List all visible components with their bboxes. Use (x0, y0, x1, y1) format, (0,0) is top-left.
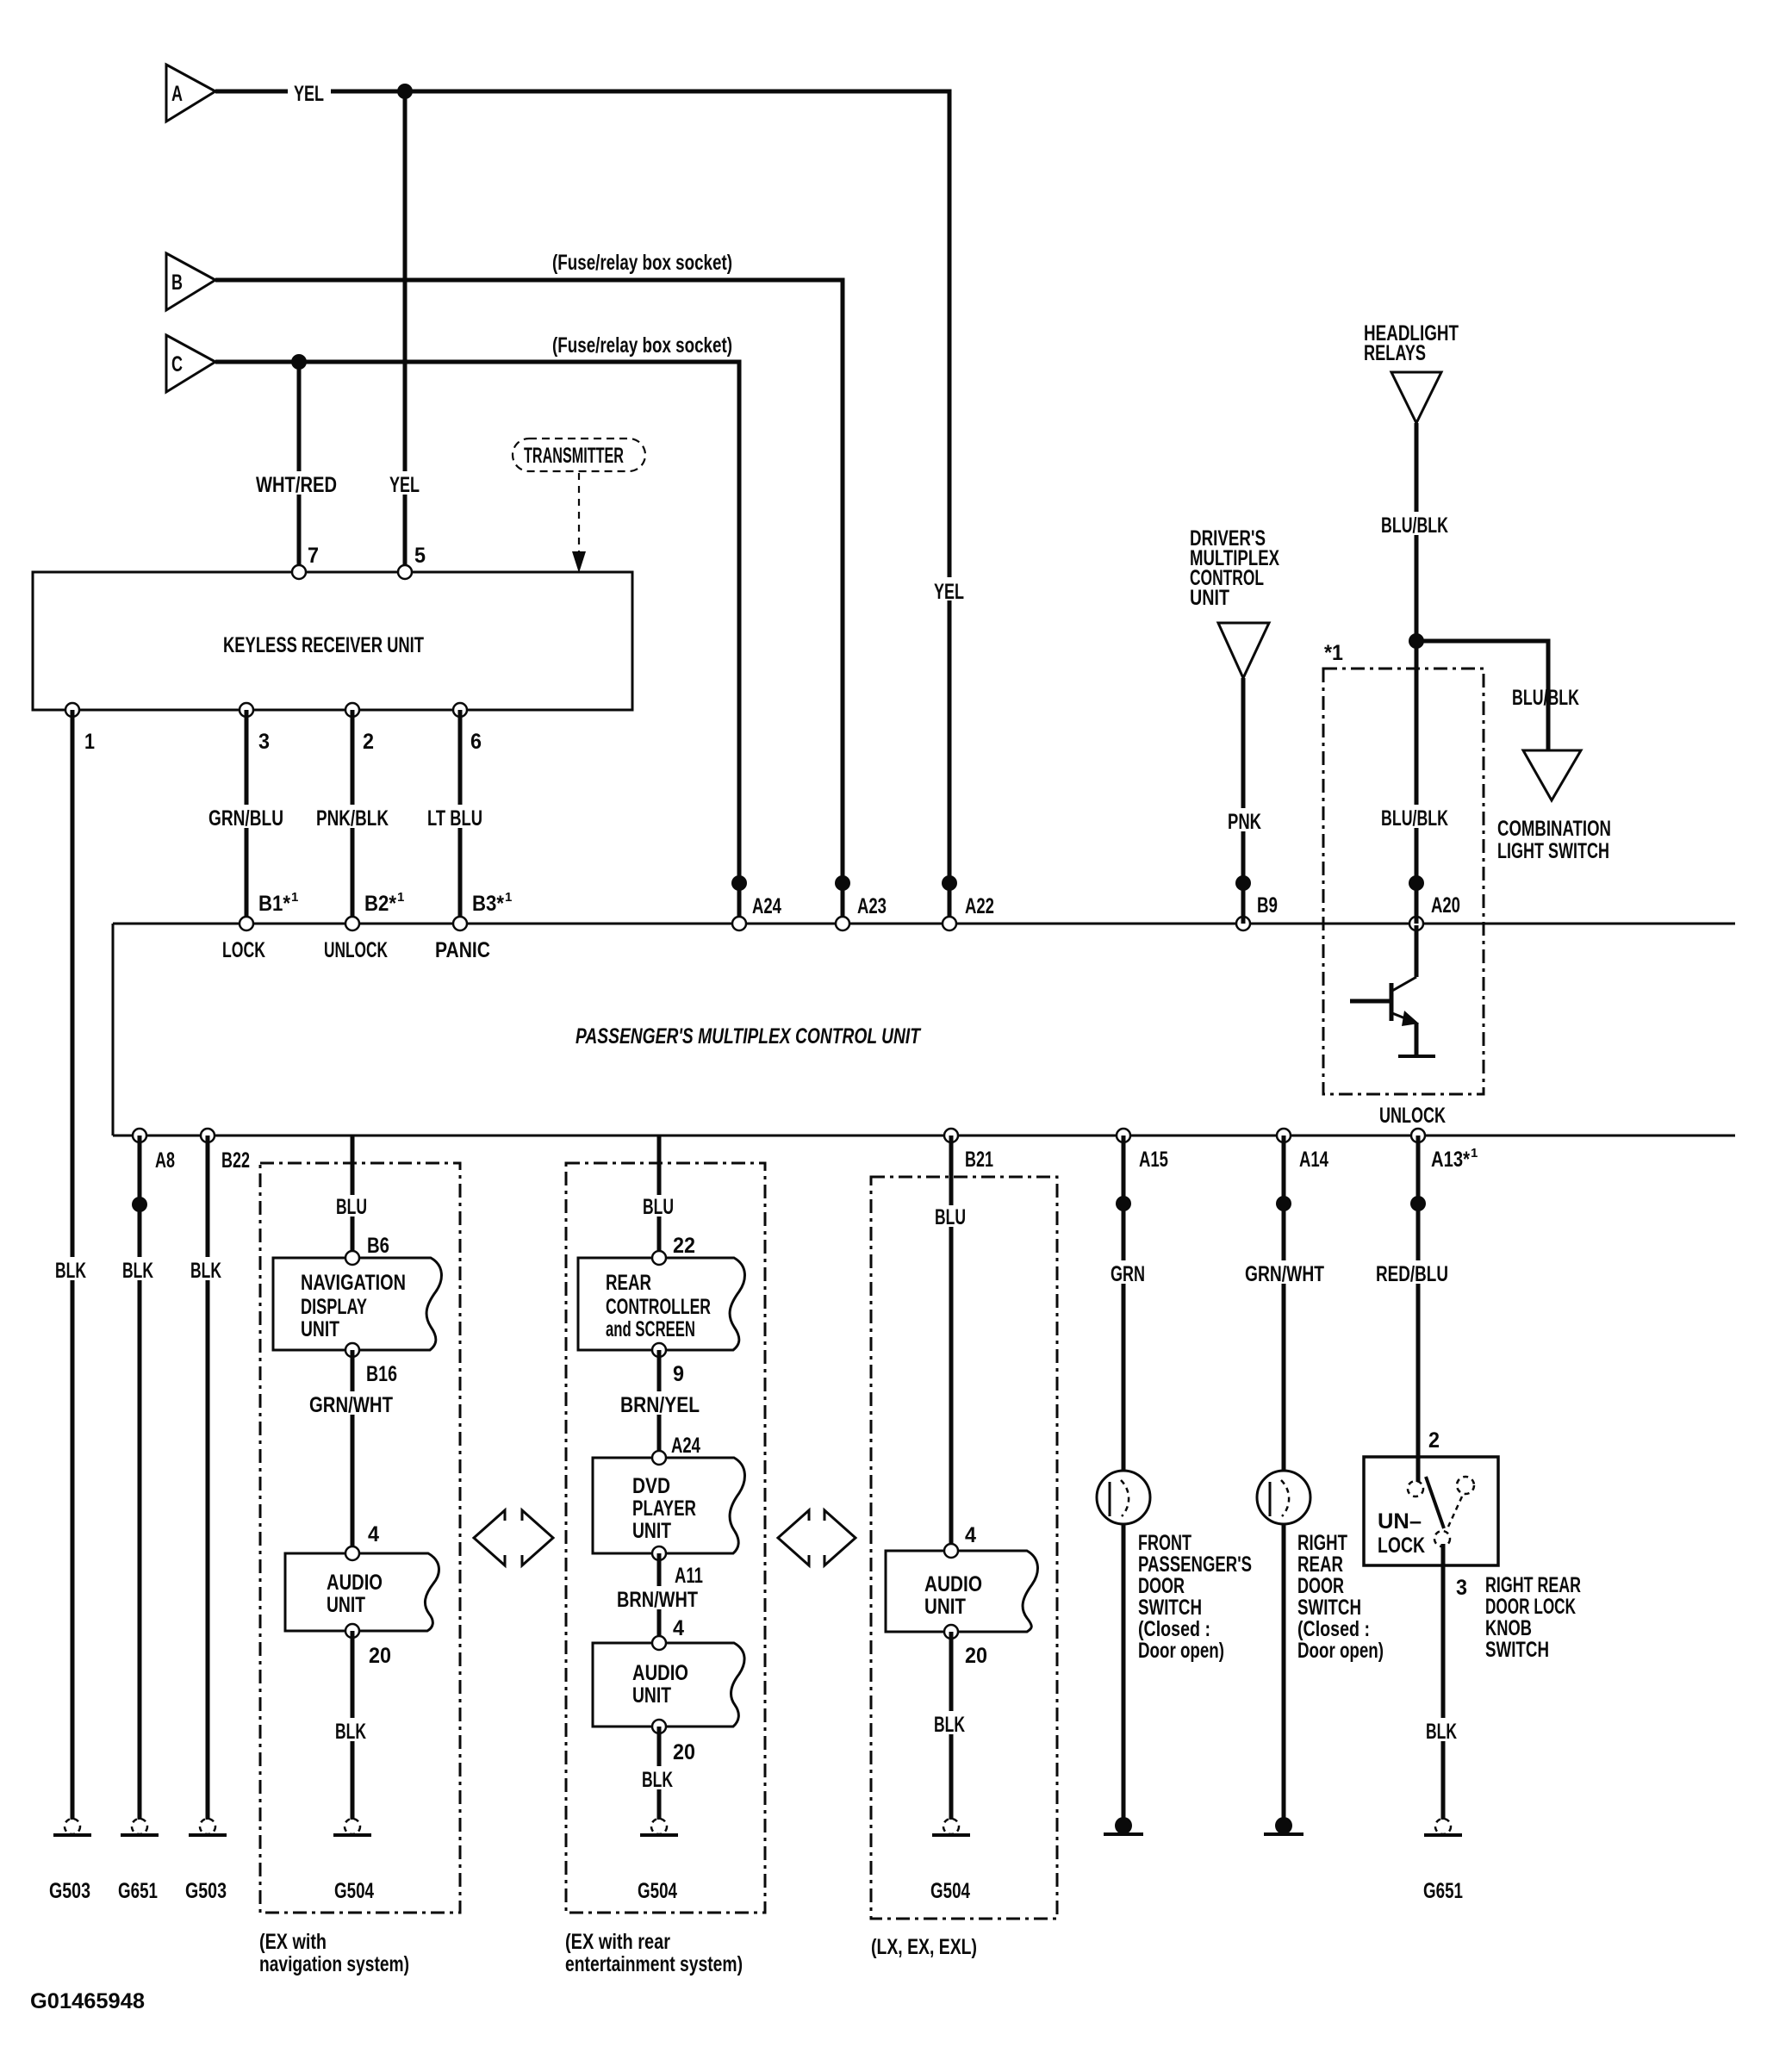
svg-text:RELAYS: RELAYS (1364, 341, 1426, 365)
ground G503 (keyless pin1) (53, 1819, 91, 1835)
wire YEL to keyless pin 5 (403, 91, 408, 572)
wire BLK audio to G504 (LX) (949, 1632, 954, 1820)
svg-text:(EX with: (EX with (259, 1930, 327, 1954)
svg-text:LT BLU: LT BLU (427, 806, 482, 831)
pin B2 (345, 917, 359, 930)
svg-text:22: 22 (673, 1234, 695, 1258)
svg-text:PASSENGER'S MULTIPLEX CONTROL: PASSENGER'S MULTIPLEX CONTROL UNIT (576, 1024, 922, 1048)
svg-text:DOOR: DOOR (1297, 1574, 1344, 1598)
svg-text:entertainment system): entertainment system) (565, 1952, 743, 1976)
svg-text:BLU: BLU (336, 1195, 367, 1219)
svg-text:3: 3 (1456, 1576, 1467, 1600)
svg-text:BRN/YEL: BRN/YEL (620, 1393, 700, 1417)
transistor emitter diagonal with arrow (1392, 1011, 1419, 1026)
navigation display unit box (273, 1258, 441, 1350)
keyless receiver unit box (33, 572, 632, 710)
svg-text:KNOB: KNOB (1485, 1616, 1532, 1640)
value label GRN/BLU (205, 805, 288, 831)
svg-text:BLK: BLK (934, 1713, 965, 1737)
value label BLK (pin1 wire) (52, 1257, 91, 1283)
svg-text:4: 4 (368, 1522, 379, 1546)
pin A24 DVD (652, 1451, 666, 1465)
pin B6 nav display (345, 1251, 359, 1265)
audio unit box (LX column) (886, 1551, 1037, 1632)
pin 2 keyless (345, 703, 359, 717)
svg-text:B2*: B2* (364, 892, 396, 916)
svg-text:B1*: B1* (258, 892, 290, 916)
junction to combination light switch branch (1409, 633, 1424, 649)
right rear door switch label (1297, 1531, 1384, 1663)
svg-text:WHT/RED: WHT/RED (256, 473, 337, 497)
svg-text:4: 4 (965, 1523, 976, 1547)
audio unit box (rear column) (593, 1643, 744, 1727)
svg-text:A24: A24 (752, 894, 781, 918)
wire C (fuse/relay box socket) (215, 362, 739, 924)
svg-text:A20: A20 (1431, 893, 1460, 918)
svg-text:1: 1 (505, 890, 512, 905)
svg-text:BLK: BLK (122, 1259, 153, 1283)
svg-text:(LX, EX, EXL): (LX, EX, EXL) (871, 1935, 977, 1959)
svg-text:BLU/BLK: BLU/BLK (1381, 806, 1448, 831)
value label GRN/WHT (1241, 1260, 1328, 1286)
value label BRN/YEL (617, 1391, 703, 1417)
pin B21 (944, 1129, 958, 1142)
wire knob switch pin 3 BLK to G651 (1441, 1544, 1446, 1820)
pin 7 keyless (292, 565, 306, 579)
bidirectional arrows rear/audio (778, 1510, 856, 1565)
transistor Q (unlock driver) collector lead (1415, 925, 1419, 977)
wire BLK audio to G504 (nav) (351, 1631, 355, 1820)
svg-text:KEYLESS RECEIVER UNIT: KEYLESS RECEIVER UNIT (223, 633, 424, 657)
junction on A13 wire (1410, 1196, 1426, 1211)
svg-text:DOOR: DOOR (1138, 1574, 1185, 1598)
svg-text:UNIT: UNIT (924, 1595, 966, 1619)
wire BRN/WHT DVD to audio (657, 1553, 662, 1643)
svg-text:A22: A22 (965, 894, 994, 918)
svg-text:1: 1 (84, 730, 95, 754)
svg-text:BLK: BLK (642, 1768, 673, 1792)
svg-text:(Closed :: (Closed : (1138, 1617, 1210, 1641)
knob switch lower contact (1434, 1531, 1450, 1546)
pin 4 audio (rear) (652, 1636, 666, 1650)
svg-text:TRANSMITTER: TRANSMITTER (524, 444, 624, 468)
junction on wire C to keyless pin 7 (291, 354, 307, 370)
wire BLK audio to G504 (rear) (657, 1727, 662, 1820)
svg-text:LIGHT SWITCH: LIGHT SWITCH (1497, 839, 1609, 863)
transistor emitter ground bar (1398, 1055, 1435, 1058)
value label BRN/WHT (613, 1586, 703, 1612)
svg-text:(Closed :: (Closed : (1297, 1617, 1370, 1641)
svg-text:B9: B9 (1257, 893, 1278, 918)
svg-text:YEL: YEL (934, 580, 964, 604)
svg-text:1: 1 (1471, 1146, 1478, 1160)
wire keyless pin1 BLK to G503 (71, 710, 75, 1820)
svg-text:PANIC: PANIC (435, 938, 490, 962)
svg-text:(Fuse/relay box socket): (Fuse/relay box socket) (552, 251, 732, 275)
passenger's multiplex control unit box (113, 924, 1735, 1136)
pin B22 (201, 1129, 215, 1142)
svg-text:A: A (171, 82, 183, 106)
svg-text:navigation system): navigation system) (259, 1952, 409, 1976)
value label GRN/WHT (nav) (306, 1391, 397, 1417)
svg-text:A23: A23 (857, 894, 887, 918)
svg-text:B: B (171, 271, 183, 295)
value label YEL on wire A (288, 79, 331, 106)
connector C (166, 335, 215, 392)
pin B16 nav display (345, 1343, 359, 1357)
svg-text:20: 20 (369, 1644, 391, 1668)
svg-text:REAR: REAR (606, 1271, 651, 1295)
svg-text:NAVIGATION: NAVIGATION (301, 1271, 406, 1295)
svg-text:2: 2 (1428, 1428, 1440, 1453)
ground (right rear door switch) (1264, 1817, 1303, 1834)
pin A24 (732, 917, 746, 930)
transistor base lead (1350, 999, 1391, 1004)
transmitter dashed arrow (572, 473, 586, 573)
svg-text:UNLOCK: UNLOCK (1379, 1104, 1446, 1128)
svg-text:Door open): Door open) (1297, 1639, 1384, 1663)
audio unit box (nav column) (285, 1553, 439, 1631)
pin A15 (1117, 1129, 1130, 1142)
value label PNK/BLK (313, 805, 394, 831)
ground G503 (B22) (189, 1819, 227, 1835)
wire WHT/RED to keyless pin 7 (297, 362, 302, 572)
pin A22 (943, 917, 956, 930)
svg-text:20: 20 (965, 1644, 987, 1668)
svg-text:DVD: DVD (632, 1474, 670, 1498)
svg-text:SWITCH: SWITCH (1297, 1596, 1361, 1620)
svg-text:A15: A15 (1139, 1148, 1168, 1172)
svg-text:PASSENGER'S: PASSENGER'S (1138, 1552, 1252, 1577)
svg-text:1: 1 (291, 890, 298, 905)
svg-text:GRN/BLU: GRN/BLU (208, 806, 283, 831)
value label WHT/RED (252, 471, 341, 497)
rear controller and screen box (578, 1258, 744, 1350)
pin A8 (133, 1129, 146, 1142)
ground G504 (LX) (932, 1819, 970, 1835)
pin 5 keyless (398, 565, 412, 579)
wire branch to combination light switch (1416, 641, 1548, 750)
svg-text:DOOR LOCK: DOOR LOCK (1485, 1595, 1576, 1619)
bidirectional arrows nav/rear (474, 1510, 553, 1565)
right rear door lock knob switch box (1364, 1457, 1498, 1565)
svg-text:6: 6 (470, 730, 482, 754)
front passenger's door switch label (1138, 1531, 1252, 1663)
svg-text:UN–: UN– (1378, 1509, 1422, 1534)
dashed option box (EX with navigation system) (260, 1163, 460, 1913)
pin A13*1 label (1431, 1146, 1478, 1172)
wire BLU/BLK headlight relays to A20 (1415, 423, 1419, 924)
svg-text:UNIT: UNIT (301, 1317, 339, 1341)
pin A13 (1411, 1129, 1425, 1142)
value label BLU (rear) (638, 1195, 680, 1219)
value label PNK (1223, 808, 1265, 834)
svg-text:G504: G504 (638, 1879, 677, 1903)
svg-text:C: C (171, 352, 183, 376)
svg-text:LOCK: LOCK (222, 938, 265, 962)
ground G504 (rear) (640, 1819, 678, 1835)
svg-text:DISPLAY: DISPLAY (301, 1295, 367, 1319)
dashed option box (LX, EX, EXL) (871, 1177, 1057, 1919)
wire B22..B6 BLU (nav column) (351, 1136, 355, 1258)
transistor collector diagonal (1392, 977, 1416, 991)
pin 1 keyless (65, 703, 79, 717)
wire keyless pin6 LT BLU to B3 (458, 710, 463, 924)
svg-text:B22: B22 (221, 1148, 250, 1173)
pin 22 rear controller (652, 1251, 666, 1265)
svg-text:BLK: BLK (190, 1259, 221, 1283)
wire GRN/WHT nav to audio (351, 1350, 355, 1553)
svg-text:GRN/WHT: GRN/WHT (1245, 1262, 1324, 1286)
svg-text:REAR: REAR (1297, 1552, 1343, 1577)
svg-text:RIGHT: RIGHT (1297, 1531, 1347, 1555)
value label BLK (knob) (1422, 1718, 1462, 1744)
svg-text:PNK/BLK: PNK/BLK (316, 806, 389, 831)
svg-text:A14: A14 (1299, 1148, 1328, 1172)
svg-text:RED/BLU: RED/BLU (1376, 1262, 1448, 1286)
wire B (fuse/relay box socket) (215, 280, 843, 924)
svg-text:BLK: BLK (1426, 1720, 1457, 1744)
svg-text:YEL: YEL (389, 473, 420, 497)
value label BLU/BLK (above A20) (1377, 805, 1454, 831)
svg-text:Door open): Door open) (1138, 1639, 1224, 1663)
svg-text:G504: G504 (930, 1879, 970, 1903)
value label BLK (A8 wire) (119, 1257, 159, 1283)
pin 20 audio (rear) (652, 1720, 666, 1733)
svg-text:UNIT: UNIT (1190, 586, 1229, 610)
combination light switch label (1497, 817, 1611, 863)
wire front door switch to ground (1122, 1523, 1126, 1826)
svg-text:AUDIO: AUDIO (924, 1572, 982, 1596)
dashed option box *1 (1323, 669, 1484, 1094)
transistor emitter wire (1415, 1023, 1419, 1056)
value label GRN (1106, 1260, 1146, 1286)
pin label B3*1 (472, 890, 512, 916)
wire GRN A15 to front passenger's door switch (1122, 1136, 1126, 1472)
pin A11 DVD (652, 1546, 666, 1560)
pin 9 rear controller (652, 1343, 666, 1357)
svg-text:1: 1 (397, 890, 404, 905)
driver's MCU connector triangle (1218, 623, 1269, 678)
svg-text:SWITCH: SWITCH (1138, 1596, 1202, 1620)
pin label B1*1 (258, 890, 298, 916)
svg-text:G651: G651 (118, 1879, 158, 1903)
headlight relays connector triangle (1391, 372, 1441, 423)
wire GRN/WHT A14 to right rear door switch (1282, 1136, 1286, 1472)
knob switch contact (pin 2) (1408, 1481, 1423, 1496)
svg-text:UNLOCK: UNLOCK (324, 938, 388, 962)
svg-text:SWITCH: SWITCH (1485, 1638, 1549, 1662)
svg-text:9: 9 (673, 1362, 684, 1386)
knob switch alternate blade (dashed) (1448, 1496, 1462, 1527)
svg-text:20: 20 (673, 1740, 695, 1764)
ground G504 (nav) (333, 1819, 371, 1835)
svg-text:B3*: B3* (472, 892, 504, 916)
svg-text:2: 2 (363, 730, 374, 754)
svg-text:PLAYER: PLAYER (632, 1496, 696, 1521)
wire B22 BLK to G503 (206, 1136, 210, 1820)
junction above pin A23 (835, 875, 850, 891)
pin 20 audio (nav) (345, 1624, 359, 1638)
right rear door lock knob switch label (1485, 1573, 1581, 1662)
svg-text:B6: B6 (367, 1234, 389, 1258)
wire PNK driver's MCU to B9 (1241, 678, 1246, 924)
svg-text:GRN: GRN (1111, 1262, 1145, 1286)
svg-text:CONTROLLER: CONTROLLER (606, 1295, 711, 1319)
transmitter balloon (513, 439, 645, 471)
driver's multiplex control unit label (1190, 526, 1279, 610)
ground G651 (A8) (121, 1819, 159, 1835)
wire right rear door switch to ground (1282, 1523, 1286, 1826)
svg-text:FRONT: FRONT (1138, 1531, 1191, 1555)
value label RED/BLU (1372, 1260, 1456, 1286)
wire BRN/YEL rear controller to DVD (657, 1350, 662, 1458)
svg-text:5: 5 (414, 544, 426, 568)
value label LT BLU (424, 805, 488, 831)
knob switch alternate contact (1457, 1477, 1474, 1494)
pin B1 (240, 917, 253, 930)
svg-text:BRN/WHT: BRN/WHT (617, 1588, 698, 1612)
svg-text:3: 3 (258, 730, 270, 754)
junction above pin A20 (1409, 875, 1424, 891)
svg-text:LOCK: LOCK (1378, 1534, 1425, 1558)
note EX with rear entertainment system (565, 1930, 743, 1976)
value label BLU/BLK (upper) (1377, 512, 1454, 538)
knob switch blade (1426, 1477, 1444, 1528)
pin B3 (453, 917, 467, 930)
dashed option box (EX with rear entertainment system) (566, 1163, 765, 1913)
svg-text:BLK: BLK (55, 1259, 86, 1283)
svg-text:G503: G503 (185, 1879, 227, 1903)
value label YEL (pin 5 wire) (383, 471, 426, 497)
junction on wire A to keyless pin 5 (397, 84, 413, 99)
svg-text:B16: B16 (366, 1362, 397, 1386)
wire keyless pin3 GRN/BLU to B1 (245, 710, 249, 924)
pin 4 audio (nav) (345, 1546, 359, 1560)
svg-text:UNIT: UNIT (327, 1593, 365, 1617)
junction on A15 wire (1116, 1196, 1131, 1211)
junction above pin B9 (1235, 875, 1251, 891)
svg-text:(EX with rear: (EX with rear (565, 1930, 670, 1954)
value label YEL on A22 drop (928, 577, 973, 604)
svg-text:and SCREEN: and SCREEN (606, 1317, 695, 1341)
svg-text:(Fuse/relay box socket): (Fuse/relay box socket) (552, 333, 732, 358)
svg-text:*1: *1 (1324, 641, 1343, 665)
ground (front door switch) (1104, 1817, 1143, 1834)
wire A8 BLK to G651 (138, 1136, 142, 1820)
svg-text:PNK: PNK (1228, 810, 1261, 834)
value label BLK (B22 wire) (187, 1257, 227, 1283)
svg-text:B21: B21 (965, 1148, 993, 1172)
pin A14 (1277, 1129, 1291, 1142)
svg-text:BLU/BLK: BLU/BLK (1512, 686, 1579, 710)
svg-text:A13*: A13* (1431, 1148, 1470, 1172)
note EX with navigation system (259, 1930, 409, 1976)
svg-text:AUDIO: AUDIO (632, 1661, 688, 1685)
svg-text:G503: G503 (49, 1879, 90, 1903)
wire RED/BLU A13 to door lock knob switch (1416, 1136, 1421, 1482)
pin 20 audio (LX) (944, 1625, 958, 1639)
wire A (YEL feed) (215, 91, 949, 924)
connector B (166, 253, 215, 310)
junction above pin A22 (942, 875, 957, 891)
pin 3 keyless (240, 703, 253, 717)
pin A23 (836, 917, 849, 930)
svg-text:G01465948: G01465948 (30, 1989, 145, 2013)
wire B21..22 BLU (rear column) (657, 1136, 662, 1258)
junction on A8 wire (132, 1197, 147, 1212)
combination light switch connector triangle (1523, 750, 1581, 800)
pin B9 (1236, 917, 1250, 930)
svg-text:BLU/BLK: BLU/BLK (1381, 513, 1448, 538)
value label BLK (nav) (332, 1718, 371, 1744)
svg-text:BLU: BLU (643, 1195, 674, 1219)
svg-text:BLU: BLU (935, 1205, 966, 1229)
junction on A14 wire (1276, 1196, 1291, 1211)
svg-text:BLK: BLK (335, 1720, 366, 1744)
transistor base bar (1390, 983, 1394, 1021)
wire B21 BLU to audio (LX) (949, 1136, 954, 1551)
value label BLK (LX) (930, 1711, 970, 1737)
svg-text:4: 4 (673, 1616, 684, 1640)
value label BLU (LX) (930, 1205, 972, 1229)
svg-text:A24: A24 (671, 1434, 700, 1458)
svg-text:G651: G651 (1423, 1879, 1463, 1903)
ground G651 (knob switch) (1424, 1819, 1462, 1835)
connector A (166, 65, 215, 121)
DVD player unit box (593, 1458, 744, 1553)
svg-text:GRN/WHT: GRN/WHT (309, 1393, 393, 1417)
svg-text:UNIT: UNIT (632, 1519, 671, 1543)
svg-text:A8: A8 (155, 1148, 175, 1173)
svg-text:7: 7 (308, 544, 319, 568)
pin label B2*1 (364, 890, 404, 916)
svg-text:RIGHT REAR: RIGHT REAR (1485, 1573, 1581, 1597)
value label BLU (nav) (332, 1195, 373, 1219)
pin 4 audio (LX) (944, 1544, 958, 1558)
wire keyless pin2 PNK/BLK to B2 (351, 710, 355, 924)
svg-text:AUDIO: AUDIO (327, 1571, 383, 1595)
pin 6 keyless (453, 703, 467, 717)
svg-text:UNIT: UNIT (632, 1683, 671, 1708)
junction above pin A24 (731, 875, 747, 891)
front passenger's door switch SW1 (1097, 1471, 1150, 1524)
value label BLK (rear) (638, 1766, 678, 1792)
pin A20 (1409, 917, 1423, 930)
svg-text:A11: A11 (675, 1564, 703, 1588)
svg-text:G504: G504 (334, 1879, 374, 1903)
right rear door switch SW2 (1257, 1471, 1310, 1524)
svg-text:COMBINATION: COMBINATION (1497, 817, 1611, 841)
svg-text:YEL: YEL (294, 82, 324, 106)
headlight relays label (1364, 321, 1459, 365)
